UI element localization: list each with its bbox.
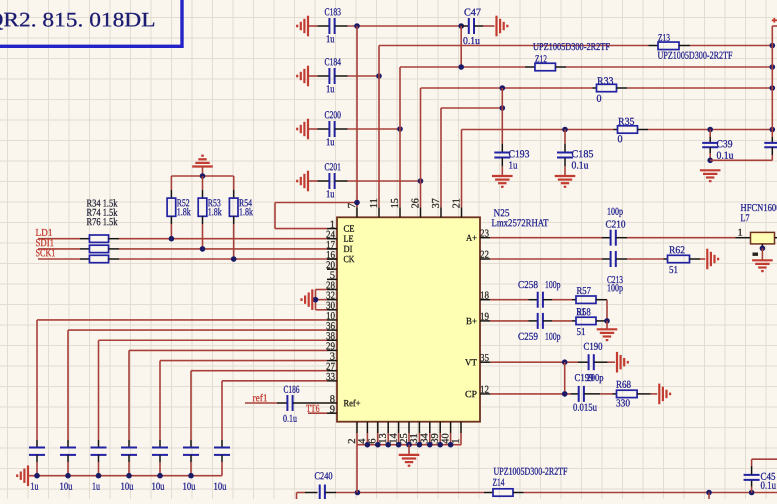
resistor R68 <box>613 393 617 395</box>
wire Z13 rail y45 <box>379 45 649 47</box>
svg-text:Lmx2572RHAT: Lmx2572RHAT <box>491 218 548 229</box>
wire pin row 11 to cap 3 <box>99 339 328 341</box>
wire ref1 <box>245 402 277 404</box>
wire pin18 out <box>490 299 529 301</box>
svg-text:33: 33 <box>326 372 335 383</box>
svg-text:C183: C183 <box>324 7 341 18</box>
capacitor bank C2 10u <box>67 440 69 447</box>
ground for R68 <box>659 384 670 405</box>
wire bottom rail left drop <box>296 493 298 500</box>
wire pin26 supply column <box>420 88 422 207</box>
pin 1 left stub <box>327 228 337 230</box>
title block frame <box>0 0 182 46</box>
wire C201 row to pin26 column <box>348 180 421 182</box>
node CE supply <box>354 200 360 206</box>
pin 28 left stub <box>327 289 337 291</box>
ground for C190 <box>617 352 628 373</box>
wire VT to CP link <box>564 362 566 394</box>
svg-text:A+: A+ <box>466 234 477 244</box>
pin 8 stub <box>327 402 337 404</box>
wire bottom cap bus <box>28 475 222 477</box>
wire R52 group rail <box>171 175 233 177</box>
svg-text:C186: C186 <box>283 385 299 396</box>
svg-text:1u: 1u <box>30 482 39 493</box>
svg-text:10u: 10u <box>182 482 196 493</box>
wire CP out <box>490 393 571 395</box>
pin 13 bottom stub <box>387 422 389 433</box>
wire C184 row <box>308 75 318 77</box>
ground for C185 <box>555 176 576 187</box>
capacitor C185 with column <box>564 130 566 144</box>
wire pin row 9 to cap 1 <box>37 319 327 321</box>
svg-text:C200: C200 <box>324 110 341 121</box>
pin 35 stub <box>480 361 490 363</box>
svg-text:21: 21 <box>451 198 462 208</box>
svg-text:0: 0 <box>617 134 622 145</box>
wire C213 to R62 <box>627 258 664 260</box>
wire C184 row to pin11 column <box>348 75 380 77</box>
capacitor bank C6 10u <box>190 440 192 447</box>
resistor R62 <box>664 258 668 260</box>
wire Z14 right <box>524 492 777 494</box>
capacitor bank C3 1u <box>98 440 100 447</box>
svg-text:330: 330 <box>616 398 630 409</box>
svg-text:C39: C39 <box>716 139 732 150</box>
capacitor C199 <box>571 393 579 395</box>
wire VT out <box>490 361 578 363</box>
pin 14 bottom stub <box>398 422 400 433</box>
wire C47 to ground <box>483 25 495 27</box>
resistor series LD1 <box>89 235 108 242</box>
node mid drop <box>706 490 712 496</box>
wire R33 rail y88 <box>421 87 593 89</box>
node C185 top <box>562 127 568 133</box>
wire pin37 supply column <box>440 108 442 207</box>
node bottom bus <box>385 442 391 448</box>
wire C258 to R57 <box>552 299 572 301</box>
wire C190 to ground <box>608 361 615 363</box>
node bottom bus <box>365 442 371 448</box>
svg-text:C47: C47 <box>464 8 481 19</box>
capacitor C213 <box>602 258 611 260</box>
capacitor C190 <box>578 361 589 363</box>
node cap bus <box>34 473 40 479</box>
wire pin11 supply column <box>378 46 380 208</box>
node C193 top <box>500 85 506 91</box>
svg-text:Z14: Z14 <box>492 478 505 489</box>
wire C47 node down to Z12 row <box>460 26 462 67</box>
ground for C183 <box>297 16 308 37</box>
node C47 junction <box>458 23 464 29</box>
resistor series SDI1 <box>89 245 108 252</box>
node cap bus <box>126 473 132 479</box>
pin 37 top stub <box>440 207 442 217</box>
pin 22 stub <box>480 258 490 260</box>
wire SDI1 to pin <box>119 248 327 250</box>
svg-text:22: 22 <box>480 250 489 261</box>
node cap bus <box>157 473 163 479</box>
wire C259 to R58 <box>552 320 572 322</box>
svg-text:1u: 1u <box>92 482 101 493</box>
node SCK1 pullup <box>231 256 237 262</box>
wire SCK1 left <box>38 258 80 260</box>
svg-text:100p: 100p <box>545 332 561 343</box>
svg-text:R33: R33 <box>597 76 614 87</box>
svg-text:9: 9 <box>330 404 335 415</box>
svg-text:C201: C201 <box>324 162 341 173</box>
wire C199 to R68 <box>600 393 612 395</box>
ground for C200 <box>297 119 308 140</box>
svg-text:CP: CP <box>465 390 477 400</box>
svg-text:UPZ1005D300-2R2TF: UPZ1005D300-2R2TF <box>533 42 610 53</box>
wire C39 bottom bus <box>710 159 772 161</box>
svg-text:1.8k: 1.8k <box>208 207 223 218</box>
node bottom bus <box>396 442 402 448</box>
svg-text:0.1u: 0.1u <box>760 481 776 492</box>
ferrite Z13 <box>649 45 659 47</box>
svg-text:10u: 10u <box>59 482 73 493</box>
wire LD1 to pin <box>119 238 327 240</box>
svg-text:R68: R68 <box>616 380 631 391</box>
svg-text:1u: 1u <box>326 137 335 148</box>
wire pin19 out <box>490 320 529 322</box>
capacitor C200 <box>329 121 334 137</box>
node C39 bottom <box>707 158 713 164</box>
power port + top right <box>772 19 777 21</box>
ground for C193 <box>492 176 513 187</box>
node bottom bus <box>448 442 454 448</box>
svg-text:15: 15 <box>390 198 401 208</box>
wire C201 row <box>308 180 318 182</box>
node rail67 right <box>770 64 776 70</box>
node pin32 gnd <box>313 297 319 303</box>
svg-text:UPZ1005D300-2R2TF: UPZ1005D300-2R2TF <box>493 467 567 478</box>
node bottom bus <box>427 442 433 448</box>
svg-text:QR2. 815. 018DL: QR2. 815. 018DL <box>0 9 156 31</box>
pin 32 left stub <box>327 299 337 301</box>
svg-text:C240: C240 <box>314 471 332 482</box>
svg-text:C193: C193 <box>508 149 529 160</box>
capacitor C186 <box>277 402 287 404</box>
wire C200 row to pin15 column <box>348 128 401 130</box>
wire pin37 rail y108 <box>441 107 502 109</box>
node bottom bus <box>406 442 412 448</box>
pin 5 left stub <box>327 278 337 280</box>
svg-text:DI: DI <box>343 245 352 255</box>
svg-text:0.1u: 0.1u <box>571 161 589 172</box>
ground for C47 <box>497 16 508 37</box>
wire R54 leg <box>233 224 235 259</box>
wire R52 leg <box>170 224 172 239</box>
ground above R52 group <box>192 156 213 167</box>
pin 21 top stub <box>461 207 463 217</box>
node rail129 right <box>770 127 776 133</box>
node rail45 right <box>770 43 776 49</box>
ground for pins 28 32 30 <box>302 289 313 310</box>
pin 20 left stub <box>327 268 337 270</box>
svg-text:C184: C184 <box>324 57 341 68</box>
pin 34 bottom stub <box>429 422 431 433</box>
svg-text:B+: B+ <box>466 317 477 327</box>
node LD1 pullup <box>169 236 175 242</box>
svg-text:UPZ1005D300-2R2TF: UPZ1005D300-2R2TF <box>657 51 732 62</box>
resistor R52 <box>170 176 172 190</box>
pin 24 left stub <box>327 238 337 240</box>
wire pin7 supply column <box>356 26 358 207</box>
svg-text:C210: C210 <box>605 220 625 231</box>
pin 31 bottom stub <box>418 422 420 433</box>
svg-text:C258: C258 <box>518 280 538 291</box>
wire pin1 CE bracket <box>275 228 327 230</box>
wire SCK1 to pin <box>119 258 327 260</box>
wire pin row 14 to cap 6 <box>191 370 327 372</box>
capacitor C46 right edge <box>771 137 773 143</box>
wire pin row 13 to cap 5 <box>160 360 327 362</box>
wire Z12 rail y67 <box>400 66 525 68</box>
pin 4 bottom stub <box>366 422 368 433</box>
node bottom bus <box>375 442 381 448</box>
wire pin22 out <box>490 258 602 260</box>
node bottom bus <box>437 442 443 448</box>
wire R62 to ground <box>700 258 705 260</box>
wire pin row 12 to cap 4 <box>129 349 327 351</box>
pin 16 left stub <box>327 258 337 260</box>
svg-text:0: 0 <box>596 94 601 105</box>
ground for C184 <box>297 66 308 87</box>
resistor R57 <box>572 299 576 301</box>
wire pin15 supply column <box>399 67 401 207</box>
svg-text:C185: C185 <box>571 149 593 160</box>
pin 10 left stub <box>327 319 337 321</box>
svg-text:VT: VT <box>465 358 477 368</box>
op-amp U N25 Lmx2572RHAT body <box>337 217 480 421</box>
pin 33 left stub <box>327 380 337 382</box>
svg-text:35: 35 <box>480 353 489 364</box>
resistor R58 <box>572 320 576 322</box>
node pin7 column top <box>354 23 360 29</box>
pin 6 bottom stub <box>377 422 379 433</box>
node C193 mid <box>500 105 506 111</box>
svg-text:R35: R35 <box>618 117 635 128</box>
svg-text:1.8k: 1.8k <box>239 207 254 218</box>
wire bottom pin bus <box>356 433 358 445</box>
svg-text:100p: 100p <box>607 283 623 294</box>
node cap bus <box>96 473 102 479</box>
svg-text:C190: C190 <box>583 342 602 353</box>
svg-text:L7: L7 <box>740 213 749 224</box>
wire R68 to ground <box>651 393 658 395</box>
svg-text:1u: 1u <box>508 161 518 172</box>
svg-text:Z12: Z12 <box>535 54 547 65</box>
pin 7 top stub <box>356 207 358 217</box>
svg-text:R57: R57 <box>576 286 591 297</box>
svg-text:100p: 100p <box>545 280 561 291</box>
node rail R53 <box>200 173 206 179</box>
svg-text:12: 12 <box>480 385 489 396</box>
svg-text:10u: 10u <box>120 482 134 493</box>
svg-text:R58: R58 <box>576 307 591 318</box>
svg-text:100p: 100p <box>607 207 623 218</box>
capacitor bank C5 10u <box>159 440 161 447</box>
svg-text:26: 26 <box>410 198 421 208</box>
resistor R35 <box>614 129 618 131</box>
svg-text:18: 18 <box>480 290 489 301</box>
pin 18 stub <box>480 299 490 301</box>
pin 40 bottom stub <box>450 422 452 433</box>
pin 38 left stub <box>327 339 337 341</box>
svg-text:0.1u: 0.1u <box>283 414 298 425</box>
capacitor C210 <box>602 237 611 239</box>
pin 39 bottom stub <box>439 422 441 433</box>
node rail88 right <box>770 85 776 91</box>
svg-text:C259: C259 <box>518 332 538 343</box>
filter L7 HFCN1600 <box>736 237 751 239</box>
wire pin row 10 to cap 2 <box>68 329 327 331</box>
pin 2 bottom stub <box>356 422 358 433</box>
capacitor C39 with column <box>709 130 711 138</box>
pin 29 left stub <box>327 349 337 351</box>
node SDI1 pullup <box>200 246 206 252</box>
capacitor C201 <box>329 173 334 189</box>
pin 27 left stub <box>327 370 337 372</box>
ground for bottom bus <box>408 445 410 455</box>
wire TT6 pin9 <box>308 412 327 414</box>
svg-text:11: 11 <box>369 198 380 208</box>
pin 19 stub <box>480 320 490 322</box>
resistor R33 <box>593 87 597 89</box>
pin 15 top stub <box>399 207 401 217</box>
node R58 out <box>604 318 610 324</box>
svg-text:Z13: Z13 <box>658 33 670 44</box>
pin 26 top stub <box>420 207 422 217</box>
wire pins 28 32 30 ground bracket <box>316 289 328 291</box>
resistor R54 <box>233 176 235 190</box>
node cap bus <box>65 473 71 479</box>
resistor R53 <box>202 176 204 190</box>
wire C183 row <box>308 25 318 27</box>
svg-text:1: 1 <box>737 228 742 239</box>
wire SDI1 left <box>38 248 80 250</box>
svg-text:1.8k: 1.8k <box>177 207 192 218</box>
node VT <box>562 359 568 365</box>
svg-text:0.015u: 0.015u <box>573 403 598 414</box>
capacitor C240 <box>297 492 306 494</box>
node C45 bottom <box>749 490 755 496</box>
wire A+ out <box>490 237 602 239</box>
svg-text:51: 51 <box>669 265 678 276</box>
ground for C201 <box>297 171 308 192</box>
node Z12 C47 <box>458 64 464 70</box>
svg-text:51: 51 <box>576 327 585 338</box>
svg-text:CE: CE <box>343 225 354 235</box>
capacitor bank C1 1u <box>36 440 38 447</box>
node cap bus <box>188 473 194 479</box>
pin 3 left stub <box>327 360 337 362</box>
wire C45 top <box>752 458 777 460</box>
ground for cap bus <box>17 465 28 486</box>
ground for C39 <box>700 170 721 181</box>
wire C240 to Z14 <box>336 492 484 494</box>
wire R57 to R58 node <box>606 300 608 321</box>
pin 25 bottom stub <box>408 422 410 433</box>
wire supply right column <box>772 25 777 27</box>
wire mid drop <box>708 493 710 500</box>
svg-text:R76 1.5k: R76 1.5k <box>86 217 118 228</box>
svg-text:C199: C199 <box>574 373 593 384</box>
wire R53 leg <box>202 224 204 249</box>
svg-text:R62: R62 <box>669 245 685 256</box>
pin 30 left stub <box>327 309 337 311</box>
capacitor C47 <box>461 25 469 27</box>
svg-text:Ref+: Ref+ <box>343 398 360 409</box>
ground for R58 <box>606 321 608 329</box>
svg-text:SCK1: SCK1 <box>35 248 55 259</box>
wire bus corner drop <box>356 445 358 493</box>
pin 11 top stub <box>378 207 380 217</box>
capacitor C45 <box>751 487 753 493</box>
capacitor C258 <box>529 299 538 301</box>
svg-text:19: 19 <box>480 312 489 323</box>
pin 12 stub <box>480 393 490 395</box>
wire C210 to L7 <box>627 237 736 239</box>
wire C183 to C47 <box>348 25 462 27</box>
svg-text:1u: 1u <box>326 84 335 95</box>
pin 17 left stub <box>327 248 337 250</box>
svg-text:2: 2 <box>347 439 358 444</box>
pin 2 of L7 to ground <box>761 244 763 248</box>
resistor series SCK1 <box>89 255 108 262</box>
capacitor C259 <box>529 320 538 322</box>
capacitor C184 <box>329 68 334 84</box>
capacitor C193 with column <box>501 88 503 144</box>
wire C200 row <box>308 128 318 130</box>
svg-text:1u: 1u <box>326 34 335 45</box>
pin 23 stub <box>480 237 490 239</box>
wire pin21 supply column <box>461 130 463 208</box>
svg-text:LE: LE <box>343 235 353 245</box>
node bus drop <box>355 490 361 496</box>
node bottom bus <box>417 442 423 448</box>
svg-text:23: 23 <box>480 228 489 239</box>
ground for L7 <box>752 260 773 271</box>
wire pin row 15 to cap 7 <box>222 380 327 382</box>
svg-text:CK: CK <box>343 255 354 265</box>
ground for R62 <box>707 249 718 270</box>
svg-text:37: 37 <box>431 198 442 208</box>
pin 1 bottom stub <box>460 422 462 433</box>
node C39 top <box>707 127 713 133</box>
pin 9 stub <box>327 412 337 414</box>
node CP <box>562 391 568 397</box>
wire LD1 left <box>38 238 80 240</box>
capacitor bank C4 10u <box>128 440 130 447</box>
svg-text:10u: 10u <box>213 482 227 493</box>
capacitor bank C7 10u <box>221 440 223 447</box>
capacitor C183 <box>329 18 334 34</box>
ferrite Z12 <box>525 66 535 68</box>
pin 36 left stub <box>327 329 337 331</box>
svg-text:10u: 10u <box>151 482 165 493</box>
ferrite Z14 <box>484 492 493 494</box>
wire R35 rail y129.5 <box>462 129 614 131</box>
svg-text:1u: 1u <box>326 189 335 200</box>
